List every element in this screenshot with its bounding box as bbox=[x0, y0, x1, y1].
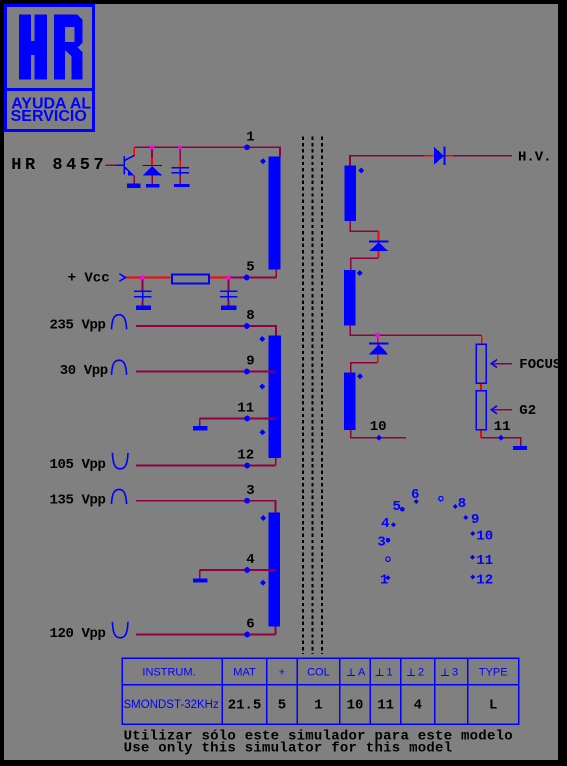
svg-text:235 Vpp: 235 Vpp bbox=[50, 318, 106, 334]
svg-text:L: L bbox=[489, 698, 497, 714]
svg-text:135 Vpp: 135 Vpp bbox=[50, 492, 106, 508]
svg-text:30 Vpp: 30 Vpp bbox=[60, 363, 108, 379]
svg-text:5: 5 bbox=[278, 698, 286, 714]
svg-text:1: 1 bbox=[387, 667, 393, 679]
svg-text:2: 2 bbox=[418, 667, 424, 679]
svg-text:11: 11 bbox=[494, 419, 511, 435]
svg-text:INSTRUM.: INSTRUM. bbox=[142, 667, 195, 679]
svg-text:+ Vcc: + Vcc bbox=[68, 271, 110, 287]
svg-text:105 Vpp: 105 Vpp bbox=[50, 457, 106, 473]
svg-text:4: 4 bbox=[381, 516, 389, 532]
svg-text:9: 9 bbox=[246, 354, 254, 370]
svg-text:MAT: MAT bbox=[233, 667, 256, 679]
svg-text:SERVICIO: SERVICIO bbox=[11, 108, 87, 125]
svg-text:1: 1 bbox=[380, 573, 388, 589]
svg-text:10: 10 bbox=[370, 419, 387, 435]
svg-text:11: 11 bbox=[377, 698, 394, 714]
svg-text:4: 4 bbox=[414, 698, 422, 714]
svg-text:10: 10 bbox=[476, 528, 493, 544]
svg-text:3: 3 bbox=[377, 535, 385, 551]
svg-text:3: 3 bbox=[246, 483, 254, 499]
svg-text:1: 1 bbox=[246, 130, 254, 146]
svg-text:A: A bbox=[358, 667, 366, 679]
svg-text:5: 5 bbox=[246, 260, 254, 276]
svg-text:1: 1 bbox=[314, 698, 322, 714]
svg-text:TYPE: TYPE bbox=[479, 667, 508, 679]
svg-text:11: 11 bbox=[237, 401, 254, 417]
svg-text:5: 5 bbox=[393, 499, 401, 515]
svg-text:11: 11 bbox=[476, 553, 493, 569]
svg-text:8: 8 bbox=[246, 308, 254, 324]
svg-text:8: 8 bbox=[458, 496, 466, 512]
svg-text:HR 8457: HR 8457 bbox=[11, 156, 107, 175]
svg-text:Use only this simulator for th: Use only this simulator for this model bbox=[124, 741, 453, 757]
svg-text:+: + bbox=[279, 667, 285, 679]
svg-text:COL: COL bbox=[307, 667, 330, 679]
svg-text:H.V.: H.V. bbox=[518, 150, 552, 166]
svg-text:9: 9 bbox=[471, 512, 479, 528]
svg-text:10: 10 bbox=[347, 698, 364, 714]
svg-text:4: 4 bbox=[246, 552, 254, 568]
svg-text:12: 12 bbox=[237, 448, 254, 464]
svg-text:6: 6 bbox=[411, 487, 419, 503]
svg-text:120 Vpp: 120 Vpp bbox=[50, 626, 106, 642]
svg-text:FOCUS: FOCUS bbox=[519, 357, 561, 373]
svg-text:G2: G2 bbox=[519, 403, 536, 419]
svg-text:SMONDST-32KHz: SMONDST-32KHz bbox=[124, 699, 219, 711]
svg-text:3: 3 bbox=[452, 667, 458, 679]
svg-text:6: 6 bbox=[246, 617, 254, 633]
svg-text:21.5: 21.5 bbox=[228, 698, 262, 714]
svg-text:12: 12 bbox=[476, 573, 493, 589]
